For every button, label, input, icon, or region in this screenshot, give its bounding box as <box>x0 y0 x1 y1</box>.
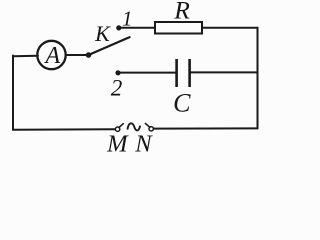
contact 1 <box>116 25 121 30</box>
terminal N <box>145 124 153 132</box>
svg-text:R: R <box>173 0 190 25</box>
wire ammeter to switch pivot <box>66 54 89 56</box>
svg-text:A: A <box>43 43 60 69</box>
wire left vertical <box>12 56 14 130</box>
wire contact 2 to capacitor <box>118 72 176 74</box>
wire top from contact 1 to resistor <box>119 27 155 29</box>
switch K <box>86 37 130 58</box>
svg-text:M: M <box>106 131 129 158</box>
capacitor C <box>177 59 190 87</box>
contact 2 <box>115 70 120 75</box>
terminal M <box>115 124 123 132</box>
wire resistor to top-right corner <box>202 27 258 29</box>
AC squiggle between M and N <box>128 123 140 130</box>
wire right vertical <box>257 28 259 129</box>
wire left horizontal to ammeter <box>13 55 38 58</box>
svg-text:C: C <box>173 89 191 118</box>
svg-text:N: N <box>134 131 153 158</box>
wire capacitor to right vertical <box>190 71 258 73</box>
wire bottom right segment <box>154 127 258 129</box>
svg-text:K: K <box>94 21 111 46</box>
ammeter A <box>37 41 65 69</box>
wire bottom left segment <box>13 128 115 130</box>
svg-text:2: 2 <box>111 76 123 101</box>
resistor R <box>155 22 202 34</box>
svg-text:1: 1 <box>122 7 133 31</box>
